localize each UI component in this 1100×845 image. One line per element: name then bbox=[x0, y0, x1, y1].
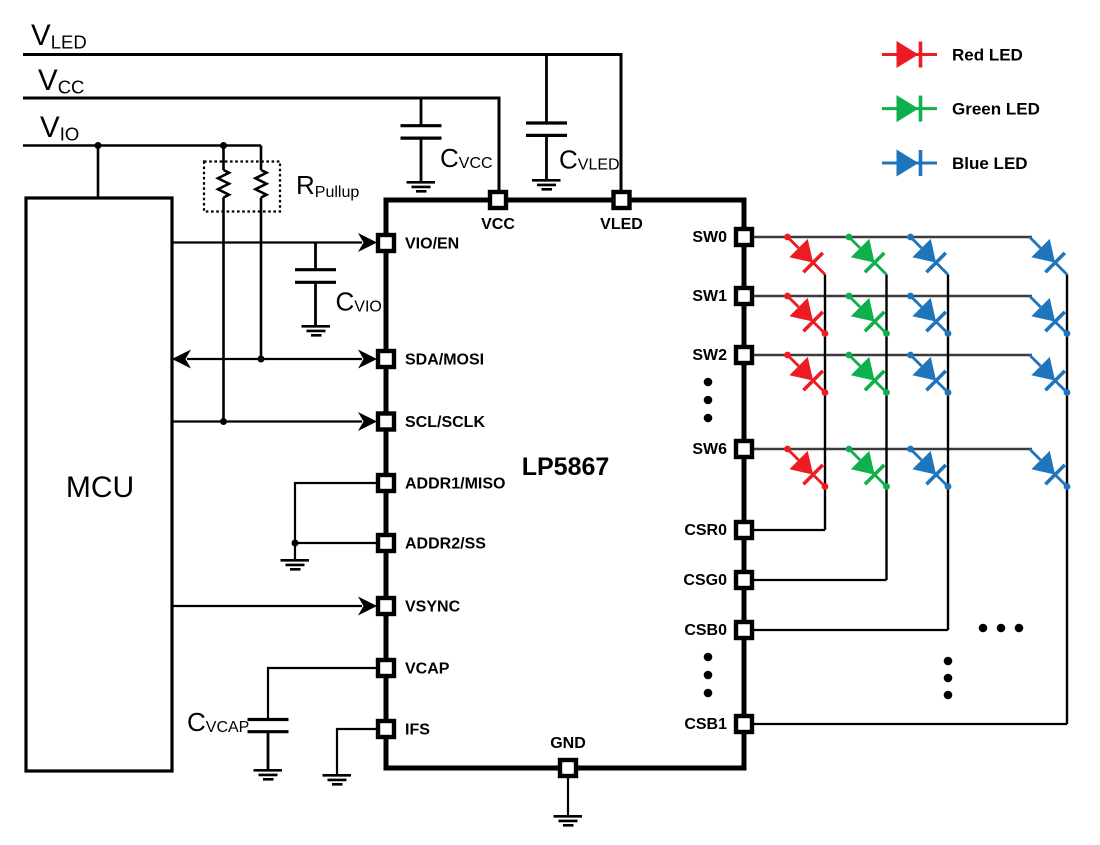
ellipsis dots inside IC (CSB) bbox=[704, 653, 713, 662]
capacitor C_VCAP bbox=[248, 720, 289, 732]
svg-text:CSB1: CSB1 bbox=[684, 716, 727, 733]
arrow into VSYNC pin bbox=[358, 597, 377, 616]
svg-text:GND: GND bbox=[550, 735, 586, 752]
wire V_CC rail bbox=[23, 98, 499, 193]
capacitor C_VLED bbox=[545, 55, 548, 180]
pin VCAP bbox=[378, 660, 394, 676]
diode far blue SW1 bbox=[1020, 286, 1077, 343]
svg-text:Red LED: Red LED bbox=[952, 46, 1023, 65]
svg-text:VSYNC: VSYNC bbox=[405, 599, 461, 616]
svg-text:CSG0: CSG0 bbox=[683, 572, 727, 589]
svg-text:VCAP: VCAP bbox=[405, 661, 450, 678]
pin SDA/MOSI bbox=[378, 351, 394, 367]
wire MCU to VIO/EN bbox=[172, 241, 362, 243]
dashed box around pullup resistors bbox=[204, 162, 280, 212]
diode green SW0 bbox=[837, 225, 896, 284]
diode red SW0 bbox=[775, 225, 834, 284]
junction V_IO / MCU branch bbox=[95, 142, 102, 149]
wire CSB0 bbox=[753, 629, 948, 631]
svg-text:ADDR1/MISO: ADDR1/MISO bbox=[405, 476, 505, 493]
pin CSB0 bbox=[736, 622, 752, 638]
wire IFS bbox=[337, 729, 377, 774]
capacitor C_VCC bbox=[420, 98, 423, 181]
pin SW2 bbox=[736, 347, 752, 363]
wire R2 vertical (VIO rail to SDA) bbox=[260, 146, 263, 360]
wire green cathode column bbox=[885, 275, 887, 581]
pin ADDR2/SS bbox=[378, 535, 394, 551]
capacitor C_VIO bbox=[314, 243, 317, 326]
pin ADDR1/MISO bbox=[378, 475, 394, 491]
arrow into VIO/EN bbox=[358, 233, 377, 252]
resistor R_pullup 1 bbox=[218, 170, 229, 198]
junction V_IO / R1 branch bbox=[220, 142, 227, 149]
pin SW0 bbox=[736, 229, 752, 245]
svg-text:SW1: SW1 bbox=[692, 288, 727, 305]
pin CSG0 bbox=[736, 572, 752, 588]
diode green SW2 bbox=[837, 343, 896, 402]
wire SDA/MOSI bbox=[187, 358, 362, 360]
wire CSG0 bbox=[753, 579, 887, 581]
svg-text:VIO/EN: VIO/EN bbox=[405, 236, 459, 253]
pin VCC bbox=[490, 192, 506, 208]
ellipsis dots inside IC (SW) bbox=[704, 378, 713, 387]
wire blue cathode column bbox=[947, 275, 949, 631]
diode blue SW0 bbox=[898, 225, 957, 284]
junction red column dots bbox=[822, 330, 829, 337]
diode legend red bbox=[882, 41, 937, 68]
diode red SW2 bbox=[775, 343, 834, 402]
wire SW0 row bbox=[753, 236, 1032, 238]
wire red cathode column bbox=[824, 275, 826, 531]
wire V_IO to MCU bbox=[97, 146, 100, 199]
diode far blue SW0 bbox=[1020, 227, 1077, 284]
resistor R_pullup 2 bbox=[256, 170, 267, 198]
ground under C_VCAP bbox=[254, 770, 283, 779]
pin IFS bbox=[378, 721, 394, 737]
ground under C_VIO bbox=[302, 326, 331, 335]
diode far blue SW6 bbox=[1020, 439, 1077, 496]
wire ADDR1/MISO to ADDR2/SS bbox=[295, 483, 377, 559]
wire V_IO rail bbox=[23, 144, 261, 147]
diode blue SW6 bbox=[898, 437, 957, 496]
junction R1 / SCL bbox=[220, 418, 227, 425]
junction ADDR ground bbox=[292, 540, 299, 547]
diode legend green bbox=[882, 95, 937, 122]
wire MCU to VSYNC bbox=[172, 605, 362, 607]
diode legend blue bbox=[882, 150, 937, 177]
wire CSR0 bbox=[753, 529, 825, 531]
svg-text:IFS: IFS bbox=[405, 722, 430, 739]
svg-text:ADDR2/SS: ADDR2/SS bbox=[405, 536, 486, 553]
svg-text:SDA/MOSI: SDA/MOSI bbox=[405, 352, 484, 369]
ellipsis dots vertical below CSB0 bbox=[944, 657, 953, 666]
wire VCAP bbox=[268, 668, 377, 720]
pin VIO/EN bbox=[378, 235, 394, 251]
wire SW1 row bbox=[753, 295, 1032, 297]
svg-text:VLED: VLED bbox=[600, 216, 643, 233]
svg-text:SCL/SCLK: SCL/SCLK bbox=[405, 414, 485, 431]
svg-text:CSR0: CSR0 bbox=[684, 522, 727, 539]
svg-text:LP5867: LP5867 bbox=[522, 453, 610, 481]
pin CSR0 bbox=[736, 522, 752, 538]
pin VLED bbox=[614, 192, 630, 208]
wire R1 vertical (VIO rail to SCL) bbox=[222, 146, 225, 422]
wire V_LED rail bbox=[23, 55, 621, 194]
ground under IFS bbox=[323, 775, 352, 784]
junction R2 / SDA bbox=[258, 356, 265, 363]
svg-text:Blue LED: Blue LED bbox=[952, 154, 1028, 173]
pin VSYNC bbox=[378, 598, 394, 614]
pin SW1 bbox=[736, 288, 752, 304]
wire SW6 row bbox=[753, 448, 1032, 450]
wire SW2 row bbox=[753, 354, 1032, 356]
wire SCL/SCLK bbox=[172, 420, 362, 422]
ground under GND pin bbox=[554, 816, 583, 825]
diode green SW1 bbox=[837, 284, 896, 343]
svg-text:Green LED: Green LED bbox=[952, 100, 1040, 119]
diode blue SW2 bbox=[898, 343, 957, 402]
wire far blue cathode column bbox=[1066, 275, 1068, 725]
diode blue SW1 bbox=[898, 284, 957, 343]
svg-text:SW2: SW2 bbox=[692, 347, 727, 364]
pin GND bbox=[560, 760, 576, 776]
arrow into SDA/MOSI pin bbox=[358, 350, 377, 369]
arrow into SCL/SCLK pin bbox=[358, 412, 377, 431]
junction far blue column dots bbox=[1064, 330, 1071, 337]
GND wire below IC bbox=[567, 777, 569, 815]
svg-text:VCC: VCC bbox=[481, 216, 515, 233]
diode far blue SW2 bbox=[1020, 345, 1077, 402]
svg-text:MCU: MCU bbox=[66, 471, 134, 504]
LP5867 IC box bbox=[386, 200, 744, 768]
junction blue column dots bbox=[945, 330, 952, 337]
pin CSB1 bbox=[736, 716, 752, 732]
svg-text:CSB0: CSB0 bbox=[684, 622, 727, 639]
diode green SW6 bbox=[837, 437, 896, 496]
diode red SW1 bbox=[775, 284, 834, 343]
ground under C_VCC bbox=[407, 182, 436, 191]
wire CSB1 bbox=[753, 723, 1067, 725]
ground under C_VLED bbox=[532, 180, 561, 189]
diode red SW6 bbox=[775, 437, 834, 496]
ellipsis dots horizontal right of CSB0 bbox=[979, 624, 988, 633]
pin SW6 bbox=[736, 441, 752, 457]
svg-text:SW6: SW6 bbox=[692, 441, 727, 458]
pin SCL/SCLK bbox=[378, 414, 394, 430]
svg-text:SW0: SW0 bbox=[692, 229, 727, 246]
ground under ADDR2/SS bbox=[281, 560, 310, 569]
junction green column dots bbox=[883, 330, 890, 337]
MCU box bbox=[26, 198, 172, 771]
arrow into MCU (SDA) bbox=[172, 350, 191, 369]
